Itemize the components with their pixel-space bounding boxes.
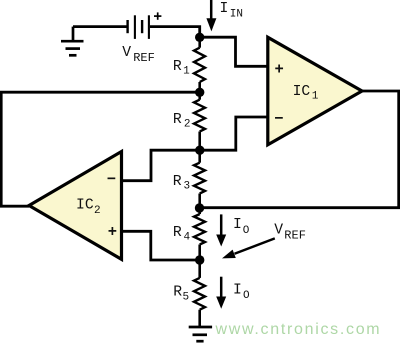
resistor R1: [194, 48, 205, 82]
svg-text:+: +: [108, 223, 117, 241]
wire node R2/R3 to IC1 - input: [200, 117, 267, 150]
svg-text:IC: IC: [293, 84, 311, 100]
I_O arrow (upper, beside R4): [220, 214, 223, 235]
op-amp IC2: [29, 152, 122, 260]
wire ground to battery: [73, 25, 127, 28]
svg-text:O: O: [243, 290, 250, 302]
wire top node to IC1 + input: [200, 37, 267, 66]
svg-text:1: 1: [312, 90, 319, 102]
svg-text:1: 1: [183, 66, 190, 78]
svg-text:I: I: [220, 1, 229, 17]
svg-text:I: I: [233, 217, 242, 233]
svg-text:R: R: [173, 174, 182, 190]
svg-text:O: O: [243, 225, 250, 237]
wire IC2 + input to node R4/R5: [122, 231, 200, 260]
battery V_REF: [128, 15, 149, 39]
I_IN arrow: [210, 0, 213, 20]
wire node R2/R3 to IC2 - input: [122, 150, 200, 181]
right feedback loop: IC1 output to node R3/R4: [200, 91, 399, 208]
resistor R5: [194, 278, 205, 310]
ground (bottom): [189, 327, 212, 341]
resistor R3: [194, 163, 205, 194]
svg-text:V: V: [122, 45, 131, 61]
svg-text:www.cntronics.com: www.cntronics.com: [215, 321, 382, 338]
node R4/R5: [195, 255, 204, 264]
node R3/R4: [195, 203, 204, 212]
V_REF pointer arrow: [235, 238, 275, 253]
node R1/R2: [195, 88, 204, 97]
svg-text:R: R: [173, 284, 182, 300]
resistor R2: [194, 100, 205, 132]
node top (I_IN junction): [195, 33, 204, 42]
svg-text:R: R: [173, 112, 182, 128]
svg-text:4: 4: [184, 232, 191, 244]
ground (top-left): [61, 27, 84, 56]
svg-text:IC: IC: [76, 198, 94, 214]
svg-text:2: 2: [94, 205, 101, 217]
I_O arrow (lower, beside R5): [220, 277, 223, 298]
op-amp IC1: [268, 37, 362, 145]
svg-text:R: R: [173, 59, 182, 75]
svg-text:V: V: [274, 223, 283, 239]
battery plus sign: [154, 12, 161, 19]
wire battery to top node: [150, 27, 200, 38]
svg-text:REF: REF: [133, 51, 155, 65]
left feedback loop: node R1/R2 to IC2 output: [1, 92, 200, 206]
node R2/R3: [195, 146, 204, 155]
resistor chain vertical leads: [198, 37, 201, 326]
svg-text:3: 3: [184, 180, 191, 192]
resistor R4: [194, 214, 205, 244]
svg-text:2: 2: [184, 119, 191, 131]
svg-text:−: −: [107, 171, 116, 189]
svg-text:−: −: [274, 110, 283, 128]
svg-text:5: 5: [183, 292, 190, 304]
svg-text:I: I: [233, 282, 242, 298]
svg-text:+: +: [275, 61, 284, 79]
svg-text:R: R: [173, 225, 182, 241]
svg-text:REF: REF: [284, 229, 306, 243]
svg-text:IN: IN: [230, 8, 243, 20]
